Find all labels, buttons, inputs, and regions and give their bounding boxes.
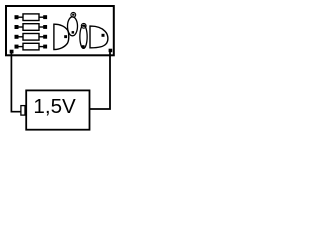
cell G1 button top	[71, 12, 76, 17]
terminal of resistor R2 (left)	[15, 25, 19, 29]
terminal of resistor R3 (left)	[15, 35, 19, 39]
terminal node B (enclosure bottom right)	[109, 49, 113, 53]
cell G2 button contact nub	[83, 25, 85, 27]
wire	[39, 16, 44, 18]
wire	[39, 36, 44, 38]
clapper dot of bell B2	[102, 34, 105, 37]
terminal of resistor R1 (left)	[15, 15, 19, 19]
terminal of resistor R4 (right)	[43, 45, 47, 49]
enclosure box (top device outline)	[6, 6, 114, 55]
terminal of resistor R1 (right)	[43, 15, 47, 19]
resistor R4	[23, 43, 39, 50]
wire	[18, 46, 23, 48]
cell G1 body	[68, 17, 78, 36]
wire	[18, 36, 23, 38]
cell G1 button contact nub	[72, 14, 74, 16]
resistor R3	[23, 34, 39, 41]
wire	[39, 46, 44, 48]
wire from node A to battery left terminal	[11, 53, 20, 112]
resistor R1	[23, 14, 39, 21]
battery left terminal tab	[21, 106, 25, 116]
wire from node B to battery right side	[90, 52, 110, 110]
cell G2 button top	[81, 23, 86, 28]
bell B1 (dome with clapper)	[54, 24, 69, 49]
terminal node A (enclosure bottom left)	[10, 50, 14, 54]
battery BT1 box	[26, 90, 89, 129]
wire	[18, 16, 23, 18]
cell G2 body	[80, 25, 87, 48]
terminal of resistor R3 (right)	[43, 35, 47, 39]
resistor R2	[23, 24, 39, 31]
cell G1 bottom contact dot	[72, 31, 75, 33]
cell G2 bottom contact dot	[82, 45, 85, 48]
clapper dot of bell B1	[64, 35, 67, 38]
bell B2 (dome with clapper)	[90, 26, 108, 48]
wire	[39, 26, 44, 28]
terminal of resistor R4 (left)	[15, 45, 19, 49]
terminal of resistor R2 (right)	[43, 25, 47, 29]
svg-text:1,5V: 1,5V	[33, 95, 76, 118]
wire	[18, 26, 23, 28]
